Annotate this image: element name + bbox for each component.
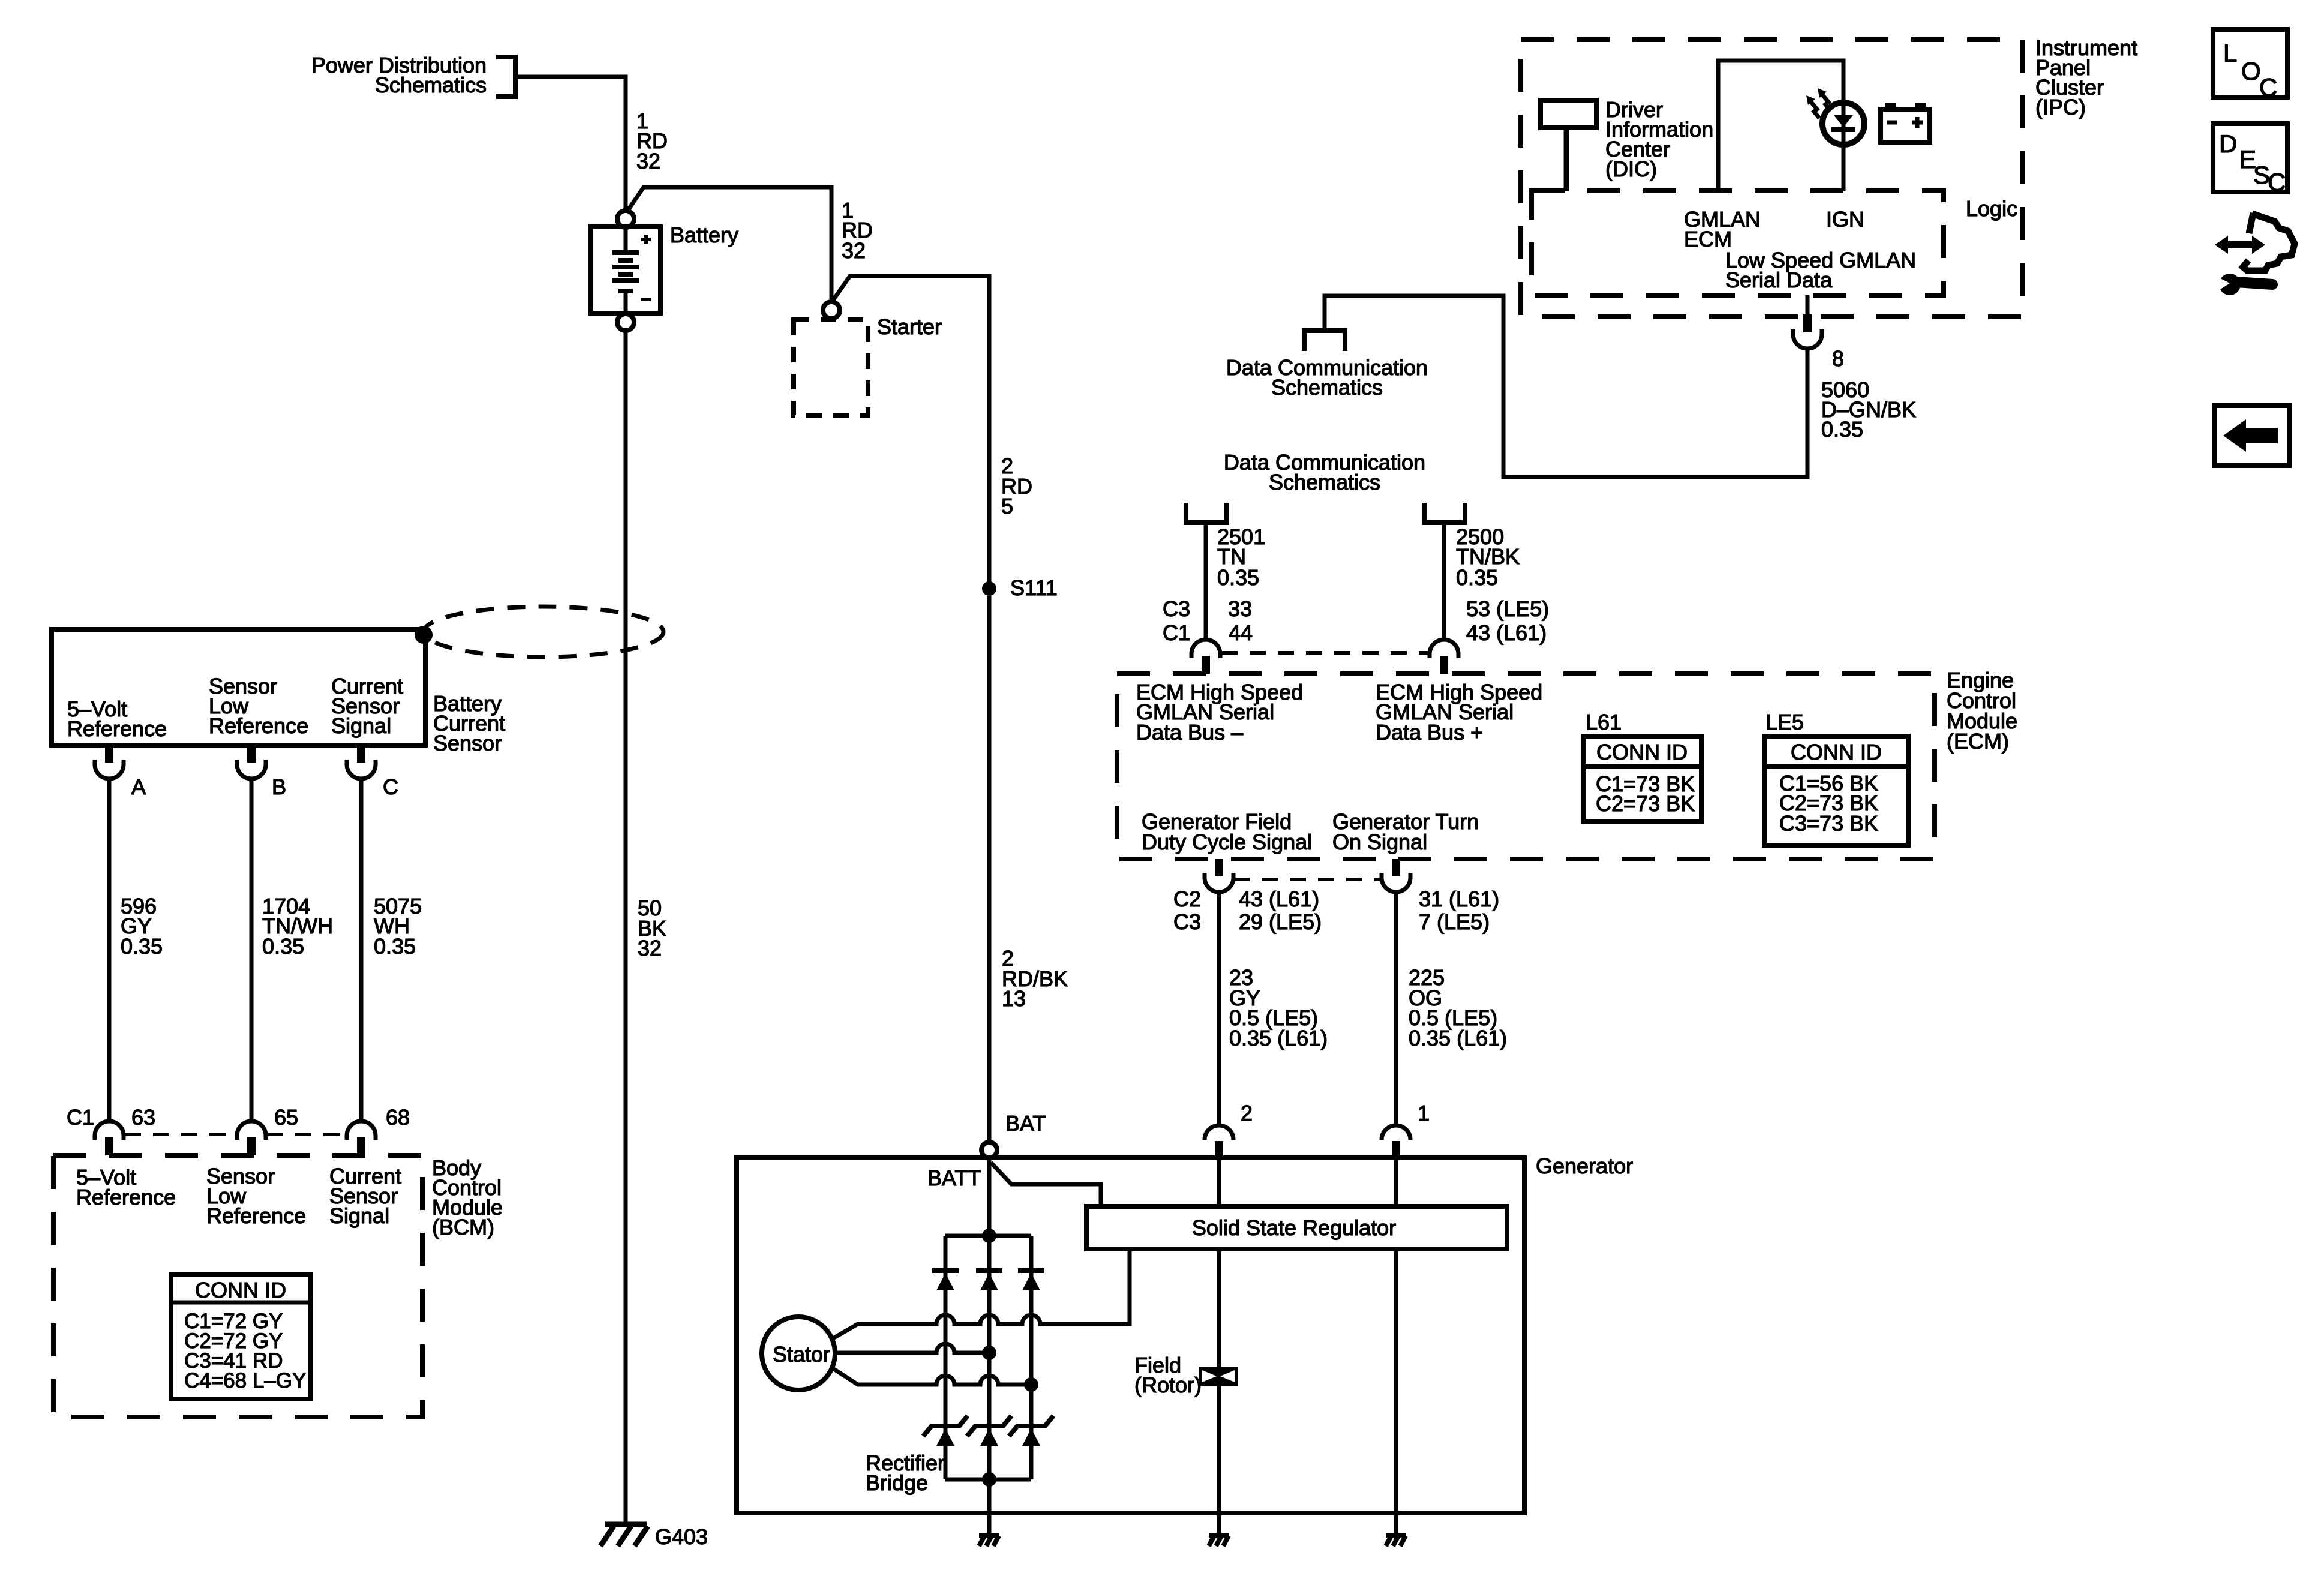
svg-text:2: 2 — [1241, 1101, 1253, 1125]
label S111 — [1010, 575, 1058, 600]
svg-text:BATT: BATT — [927, 1166, 981, 1190]
connector pin A of sensor — [95, 745, 124, 779]
connector pin 8 of IPC — [1793, 295, 1822, 349]
label LE5 — [1765, 710, 1804, 734]
wire GMLAN to IGN loop — [1718, 61, 1843, 191]
svg-text:Generator: Generator — [1536, 1154, 1633, 1178]
junction dot on top bus — [982, 1229, 996, 1243]
connector pin B of sensor — [237, 745, 266, 779]
diode D2 (upper middle) — [976, 1271, 1002, 1290]
stator winding wire bottom — [832, 1368, 1031, 1385]
dashed connector line ECM bottom — [1233, 878, 1380, 881]
label BAT — [1005, 1111, 1046, 1136]
wire label 2 RD 5 — [1001, 454, 1032, 518]
avalanche diode D5 (lower middle) — [967, 1416, 1011, 1446]
label 5-Volt Reference (BCM) — [76, 1165, 176, 1209]
rectifier top bus — [945, 1234, 1031, 1238]
label Current Sensor Signal (BCM) — [329, 1164, 401, 1228]
pin label 31 (L61) — [1419, 887, 1499, 911]
rectifier branch middle — [987, 1236, 992, 1479]
wire S111 to generator BAT — [987, 596, 992, 1142]
svg-text:32: 32 — [842, 238, 866, 263]
svg-text:(Rotor): (Rotor) — [1134, 1373, 1202, 1397]
label Power Distribution Schematics — [311, 53, 487, 97]
wire label 5060 D-GN/BK 0.35 — [1821, 377, 1916, 442]
connector pin 2 of generator — [1205, 1125, 1233, 1158]
svg-text:D: D — [2219, 130, 2237, 158]
pin label C2 43 (L61) — [1173, 887, 1319, 911]
svg-text:C3: C3 — [1173, 909, 1201, 934]
wire branch battery positive to starter — [627, 187, 831, 299]
svg-text:(BCM): (BCM) — [432, 1215, 494, 1239]
pin label 65 — [274, 1105, 298, 1130]
wire 2500 TN/BK — [1442, 523, 1446, 640]
svg-text:53 (LE5): 53 (LE5) — [1466, 596, 1549, 621]
solid state regulator (box) — [1086, 1206, 1507, 1249]
LED light arrows — [1806, 88, 1831, 118]
svg-text:5: 5 — [1001, 494, 1013, 518]
svg-text:Schematics: Schematics — [375, 73, 487, 97]
label IGN — [1826, 207, 1864, 232]
label ECM High Speed GMLAN Serial Data Bus minus — [1136, 680, 1303, 745]
icon DESC — [2213, 124, 2287, 196]
label Sensor Low Reference (sensor) — [209, 674, 308, 738]
connector pin 65 of BCM — [237, 1121, 266, 1155]
svg-text:Data Bus +: Data Bus + — [1376, 720, 1483, 745]
svg-text:BAT: BAT — [1005, 1111, 1046, 1136]
label Stator — [773, 1342, 830, 1367]
terminal BAT of generator — [981, 1142, 997, 1158]
svg-text:Data Bus –: Data Bus – — [1136, 720, 1243, 745]
label 5-Volt Reference (sensor) — [67, 697, 167, 741]
starter (dashed box) — [794, 320, 868, 415]
svg-text:C4=68 L–GY: C4=68 L–GY — [184, 1369, 306, 1392]
svg-text:33: 33 — [1228, 596, 1252, 621]
ground generator middle — [1209, 1513, 1229, 1546]
svg-text:32: 32 — [638, 936, 662, 960]
wire rectifier to generator case ground — [987, 1479, 992, 1513]
pin label 2 — [1241, 1101, 1253, 1125]
label Rectifier Bridge — [866, 1451, 945, 1495]
svg-text:0.35: 0.35 — [374, 934, 416, 959]
svg-text:(IPC): (IPC) — [2035, 95, 2086, 119]
logic (dashed box) — [1532, 191, 1944, 295]
wire BATT branch to regulator — [991, 1163, 1101, 1206]
connector pin 33/44 of ECM — [1191, 640, 1220, 674]
label Battery — [670, 223, 738, 247]
junction dot middle winding — [982, 1346, 996, 1360]
label G403 — [655, 1524, 708, 1549]
rectifier bottom bus — [945, 1478, 1031, 1482]
pin label 63 — [131, 1105, 155, 1130]
label Instrument Panel Cluster (IPC) — [2035, 35, 2137, 119]
svg-text:LE5: LE5 — [1765, 710, 1804, 734]
dashed connector line ECM top — [1221, 651, 1428, 655]
pin label C3 33 — [1163, 596, 1252, 621]
CONN ID table LE5 — [1764, 736, 1908, 845]
battery plus sign — [641, 235, 651, 244]
wire 1704 TN/WH — [250, 779, 254, 1121]
wire label 596 GY 0.35 — [121, 894, 163, 959]
label Generator — [1536, 1154, 1633, 1178]
DIC display symbol — [1541, 100, 1596, 191]
label Engine Control Module (ECM) — [1947, 668, 2017, 754]
svg-text:Reference: Reference — [206, 1203, 306, 1228]
svg-text:0.35: 0.35 — [1456, 565, 1498, 590]
label GMLAN ECM — [1684, 207, 1761, 251]
svg-text:68: 68 — [386, 1105, 410, 1130]
connector pin 1 of generator — [1382, 1125, 1410, 1158]
svg-text:44: 44 — [1229, 620, 1253, 645]
generator (box) — [737, 1158, 1524, 1513]
svg-text:43 (L61): 43 (L61) — [1466, 620, 1547, 645]
battery telltale icon — [1881, 103, 1930, 142]
svg-text:Battery: Battery — [670, 223, 738, 247]
svg-text:0.35: 0.35 — [121, 934, 163, 959]
diode D1 (upper left) — [932, 1271, 959, 1290]
icon diagnostic wrench — [2214, 213, 2295, 295]
terminal battery negative — [617, 314, 634, 331]
svg-text:(ECM): (ECM) — [1947, 729, 2009, 754]
rectifier branch right — [1029, 1236, 1034, 1479]
svg-text:Reference: Reference — [67, 716, 167, 741]
connector pin 53/43 of ECM — [1430, 640, 1458, 674]
wire 23 GY — [1217, 892, 1221, 1125]
pin label C3 29 (LE5) — [1173, 909, 1322, 934]
pin label 43 (L61) — [1466, 620, 1547, 645]
icon LOC — [2213, 29, 2287, 101]
instrument panel cluster IPC (dashed box) — [1521, 40, 2023, 317]
svg-text:On Signal: On Signal — [1332, 830, 1427, 854]
CONN ID table L61 — [1583, 736, 1701, 821]
stator (circle) — [762, 1317, 835, 1390]
svg-text:Schematics: Schematics — [1271, 375, 1383, 400]
label Sensor Low Reference (BCM) — [206, 1164, 306, 1228]
field rotor symbol — [1199, 1367, 1238, 1386]
bracket data bus plus — [1424, 503, 1465, 523]
svg-text:1: 1 — [1418, 1101, 1430, 1125]
label Driver Information Center (DIC) — [1605, 97, 1713, 181]
wire battery negative to G403 — [624, 331, 628, 1523]
svg-text:Starter: Starter — [877, 314, 942, 339]
svg-text:0.35: 0.35 — [1217, 565, 1259, 590]
label Data Communication Schematics (lower) — [1224, 450, 1425, 494]
svg-text:O: O — [2241, 57, 2261, 85]
wire lamp driver from regulator to ground — [1394, 1249, 1398, 1513]
pin label C1 44 — [1163, 620, 1253, 645]
svg-text:8: 8 — [1832, 346, 1844, 371]
pin label 7 (LE5) — [1419, 909, 1490, 934]
svg-text:29 (LE5): 29 (LE5) — [1239, 909, 1322, 934]
battery cell plates — [612, 227, 639, 313]
dashed connector line C1 of BCM — [125, 1133, 346, 1136]
svg-text:IGN: IGN — [1826, 207, 1864, 232]
svg-text:C3=73 BK: C3=73 BK — [1779, 811, 1878, 836]
wire label 2 RD/BK 13 — [1002, 946, 1068, 1011]
svg-text:Solid State Regulator: Solid State Regulator — [1192, 1215, 1396, 1240]
svg-text:63: 63 — [131, 1105, 155, 1130]
ground generator right — [1386, 1513, 1406, 1546]
avalanche diode D4 (lower left) — [923, 1416, 968, 1446]
wire field from regulator to ground — [1217, 1249, 1221, 1513]
label Data Communication Schematics (upper) — [1226, 355, 1428, 400]
svg-text:Reference: Reference — [209, 713, 308, 738]
dashed ellipse callout — [424, 607, 663, 657]
wire from Power Distribution bracket to Battery — [515, 77, 626, 211]
svg-text:Schematics: Schematics — [1269, 470, 1380, 494]
wire label 5075 WH 0.35 — [374, 894, 422, 959]
wire label 1 RD 32 — [636, 109, 668, 173]
label BATT — [927, 1166, 981, 1190]
pin label A — [131, 775, 146, 799]
wire label 1 RD 32 (starter feed) — [842, 198, 873, 263]
svg-text:B: B — [272, 775, 286, 799]
svg-text:A: A — [131, 775, 146, 799]
label Generator Field Duty Cycle Signal — [1142, 809, 1312, 854]
engine control module ECM (dashed box) — [1117, 674, 1935, 859]
rectifier branch left — [944, 1236, 948, 1479]
battery current sensor (box) — [52, 629, 425, 745]
battery minus sign — [641, 298, 651, 301]
splice S111 — [982, 581, 996, 596]
wire starter to S111 — [833, 276, 989, 582]
svg-text:C2: C2 — [1173, 887, 1201, 911]
svg-text:(DIC): (DIC) — [1605, 157, 1657, 181]
svg-text:C1: C1 — [67, 1105, 94, 1130]
junction dot bottom winding — [1024, 1377, 1038, 1392]
battery G (box) — [591, 227, 660, 313]
svg-text:C1: C1 — [1163, 620, 1190, 645]
svg-text:Reference: Reference — [76, 1185, 176, 1209]
wire terminal 1 to regulator — [1394, 1158, 1398, 1206]
bracket data bus minus — [1186, 503, 1227, 523]
label ECM High Speed GMLAN Serial Data Bus plus — [1376, 680, 1542, 745]
svg-text:0.35: 0.35 — [262, 934, 304, 959]
diode D3 (upper right) — [1018, 1271, 1044, 1290]
svg-text:C: C — [2259, 73, 2277, 101]
svg-text:Duty Cycle Signal: Duty Cycle Signal — [1142, 830, 1312, 854]
svg-text:32: 32 — [636, 149, 660, 173]
pin label C — [383, 775, 398, 799]
svg-text:CONN ID: CONN ID — [1596, 740, 1688, 764]
svg-text:0.35 (L61): 0.35 (L61) — [1229, 1026, 1328, 1050]
stator winding wire middle — [835, 1344, 989, 1353]
wire label 1704 TN/WH 0.35 — [262, 894, 333, 959]
terminal starter B+ — [823, 302, 840, 319]
avalanche diode D6 (lower right) — [1009, 1416, 1053, 1446]
wire 2501 TN — [1204, 523, 1208, 640]
ground G403 — [600, 1524, 648, 1546]
wire label 2501 TN 0.35 — [1217, 524, 1265, 590]
svg-text:C2=73 BK: C2=73 BK — [1596, 791, 1695, 816]
wire 596 GY — [107, 779, 112, 1121]
label Body Control Module (BCM) — [432, 1155, 503, 1239]
label Field (Rotor) — [1134, 1353, 1202, 1397]
svg-text:0.35 (L61): 0.35 (L61) — [1409, 1026, 1507, 1050]
svg-text:0.35: 0.35 — [1821, 417, 1863, 442]
pin label 68 — [386, 1105, 410, 1130]
svg-text:CONN ID: CONN ID — [195, 1278, 286, 1302]
svg-text:CONN ID: CONN ID — [1791, 740, 1882, 764]
wire 225 OG — [1394, 892, 1398, 1125]
bracket Power Distribution — [496, 55, 518, 99]
icon back arrow — [2215, 406, 2289, 466]
svg-text:43 (L61): 43 (L61) — [1239, 887, 1319, 911]
wire 5075 WH — [359, 779, 364, 1121]
svg-text:Signal: Signal — [331, 713, 391, 738]
svg-text:65: 65 — [274, 1105, 298, 1130]
connector pin 63 of BCM — [95, 1121, 124, 1155]
body control module BCM (dashed box) — [53, 1155, 422, 1417]
pin label C1 (BCM connector) — [67, 1105, 94, 1130]
svg-text:C: C — [383, 775, 398, 799]
svg-text:Logic: Logic — [1966, 196, 2017, 221]
svg-text:Sensor: Sensor — [433, 731, 502, 755]
svg-text:7 (LE5): 7 (LE5) — [1419, 909, 1490, 934]
label Generator Turn On Signal — [1332, 809, 1479, 854]
svg-text:Bridge: Bridge — [866, 1470, 928, 1495]
connector pin 31/7 of ECM — [1382, 859, 1410, 892]
wire label 225 OG 0.5 (LE5) 0.35 (L61) — [1409, 965, 1507, 1050]
pin label B — [272, 775, 286, 799]
node splice at sensor corner — [415, 626, 433, 644]
svg-text:ECM: ECM — [1684, 227, 1732, 251]
svg-text:Serial Data: Serial Data — [1725, 268, 1833, 292]
terminal battery positive — [617, 211, 634, 227]
svg-text:L: L — [2223, 39, 2237, 67]
label Starter — [877, 314, 942, 339]
wire label 2500 TN/BK 0.35 — [1456, 524, 1520, 590]
connector pin 68 of BCM — [347, 1121, 376, 1155]
stator winding wire top — [832, 1249, 1130, 1339]
connector pin 43/29 of ECM — [1205, 859, 1233, 892]
label Logic — [1966, 196, 2017, 221]
pin label 8 — [1832, 346, 1844, 371]
svg-text:31 (L61): 31 (L61) — [1419, 887, 1499, 911]
connector pin C of sensor — [347, 745, 376, 779]
bracket Data Communication Schematics (upper) — [1304, 331, 1345, 351]
junction dot on bottom bus — [982, 1472, 996, 1487]
svg-text:13: 13 — [1002, 986, 1026, 1011]
label Battery Current Sensor — [433, 691, 505, 755]
svg-text:L61: L61 — [1586, 710, 1622, 734]
wire terminal 2 to regulator — [1217, 1158, 1221, 1206]
label Low Speed GMLAN Serial Data — [1725, 248, 1916, 292]
label Current Sensor Signal (sensor) — [331, 674, 403, 738]
LED battery indicator — [1822, 103, 1864, 191]
svg-text:Signal: Signal — [329, 1203, 389, 1228]
wire label 50 BK 32 — [638, 896, 666, 960]
pin label 1 — [1418, 1101, 1430, 1125]
svg-text:G403: G403 — [655, 1524, 708, 1549]
wire BAT into rectifier — [987, 1158, 992, 1236]
label L61 — [1586, 710, 1622, 734]
CONN ID table of BCM — [171, 1274, 311, 1399]
label Solid State Regulator — [1192, 1215, 1396, 1240]
pin label 53 (LE5) — [1466, 596, 1549, 621]
svg-text:S111: S111 — [1010, 575, 1058, 600]
wire 5060 D-GN/BK — [1325, 296, 1807, 477]
wire label 23 GY 0.5 (LE5) 0.35 (L61) — [1229, 965, 1328, 1050]
svg-text:Stator: Stator — [773, 1342, 830, 1367]
svg-text:C3: C3 — [1163, 596, 1190, 621]
ground generator left — [979, 1513, 999, 1546]
svg-text:C: C — [2268, 168, 2286, 196]
